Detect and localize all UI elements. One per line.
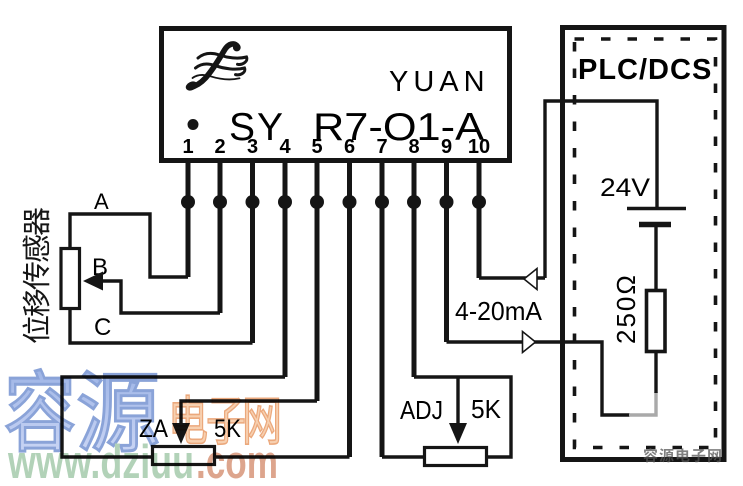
watermark 电子网 orange — [173, 395, 279, 444]
watermark 容源 blue — [7, 369, 158, 451]
pin 9 junction dot — [440, 195, 454, 209]
wire pin7 to ADJ pot left — [382, 455, 424, 458]
wire resistor bottom — [654, 353, 657, 393]
pin 7 stub — [380, 161, 385, 457]
potentiometer ADJ 5K body — [425, 448, 487, 466]
svg-text:2: 2 — [214, 136, 225, 158]
pin 5 junction dot — [310, 195, 324, 209]
ADJ wiper arrow — [449, 423, 467, 444]
logo YUAN f-swoosh — [184, 44, 247, 93]
svg-text:6: 6 — [344, 136, 355, 158]
current direction arrow (toward module) — [524, 269, 537, 290]
pin 10 stub — [477, 161, 482, 278]
pin 6 stub — [347, 161, 352, 457]
battery 24V plate short — [639, 222, 671, 228]
svg-text:5: 5 — [311, 136, 322, 158]
svg-text:www.dziuu: www.dziuu — [7, 435, 194, 481]
ZA wiper arrow — [172, 423, 190, 444]
wire pin5 to ZA wiper — [181, 401, 317, 424]
wire pin4 to ZA pot left — [62, 377, 285, 457]
pin 4 junction dot — [278, 195, 292, 209]
wire pin3 to sensor bottom (node C) — [70, 310, 253, 343]
pin 1 stub — [186, 161, 191, 277]
potentiometer ZA 5K body — [153, 447, 215, 465]
module U1 SY R7-O1-A box — [162, 29, 510, 161]
pin 8 junction dot — [407, 195, 421, 209]
pin 10 junction dot — [472, 195, 486, 209]
svg-text:1: 1 — [182, 136, 193, 158]
wire ADJ wiper to pin8 line — [456, 377, 459, 424]
svg-text:5K: 5K — [471, 394, 502, 424]
pin 9 stub — [444, 161, 449, 342]
wire pin9 to PLC return — [447, 342, 631, 415]
pin 3 stub — [250, 161, 255, 343]
bullet dot — [188, 119, 199, 130]
PLC/DCS dashed inner border — [575, 39, 716, 448]
resistor 250ohm body — [647, 291, 666, 352]
svg-text:PLC/DCS: PLC/DCS — [578, 54, 712, 86]
wire pin6 to ZA pot right — [216, 455, 350, 458]
wire segment (grayed by watermark) — [629, 392, 656, 415]
label 位移传感器 (displacement sensor) — [22, 208, 49, 343]
pin 1 junction dot — [181, 195, 195, 209]
svg-text:10: 10 — [468, 136, 490, 158]
svg-text:24V: 24V — [600, 174, 650, 202]
wire pin2 to wiper (node B) — [101, 281, 220, 313]
wire pin1 to sensor top (node A) — [70, 214, 188, 277]
pin 2 stub — [218, 161, 223, 313]
svg-text:8: 8 — [408, 136, 419, 158]
current direction arrow (toward PLC) — [523, 332, 536, 353]
svg-text:3: 3 — [247, 136, 258, 158]
svg-text:250Ω: 250Ω — [611, 273, 641, 344]
pin 3 junction dot — [246, 195, 260, 209]
wire pin8 to ADJ pot right — [414, 377, 511, 457]
svg-text:4-20mA: 4-20mA — [455, 296, 543, 326]
svg-text:7: 7 — [376, 136, 387, 158]
svg-text:C: C — [94, 314, 111, 341]
pin 7 junction dot — [375, 195, 389, 209]
faint watermark text on cabinet bottom — [643, 448, 720, 462]
pin 8 stub — [412, 161, 417, 377]
PLC/DCS cabinet box — [563, 28, 725, 460]
pin numbers 1-10 — [182, 136, 490, 158]
watermark layer — [7, 369, 279, 486]
wire pin10 to +24V feed — [479, 101, 657, 278]
wire battery minus to resistor — [654, 227, 657, 290]
svg-text:4: 4 — [279, 136, 291, 158]
svg-text:ADJ: ADJ — [400, 395, 443, 425]
svg-text:.com: .com — [196, 435, 278, 481]
battery 24V plate long — [627, 207, 686, 211]
pin 5 stub — [315, 161, 320, 401]
sensor wiper arrow — [83, 272, 103, 291]
svg-text:R7-O1-A: R7-O1-A — [313, 106, 484, 149]
svg-text:YUAN: YUAN — [389, 66, 490, 98]
displacement sensor potentiometer RP1 body — [61, 249, 80, 309]
pin 6 junction dot — [343, 195, 357, 209]
svg-text:9: 9 — [441, 136, 452, 158]
svg-text:A: A — [94, 189, 109, 214]
pin 4 stub — [283, 161, 288, 377]
pin 2 junction dot — [213, 195, 227, 209]
